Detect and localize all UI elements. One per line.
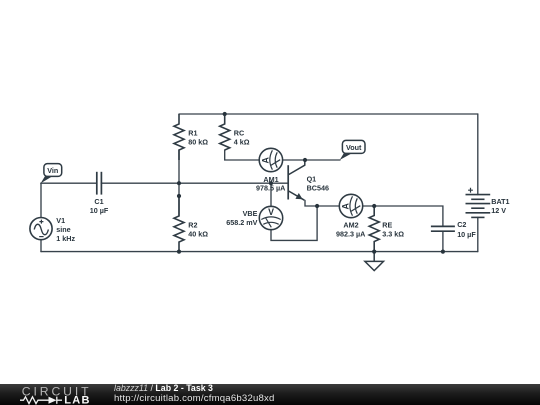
svg-text:http://circuitlab.com/cfmqa6b3: http://circuitlab.com/cfmqa6b32u8xd — [114, 393, 275, 404]
svg-text:40 kΩ: 40 kΩ — [188, 229, 208, 238]
wire battery top lead — [477, 114, 479, 195]
label RC value — [234, 128, 250, 146]
wire AM1 to collector node — [283, 159, 306, 161]
resistor R1 — [174, 114, 184, 160]
wire V1 top lead — [40, 183, 42, 217]
svg-text:A: A — [341, 202, 351, 209]
resistor RC — [220, 114, 230, 150]
wire C2 bottom lead — [442, 231, 444, 251]
wire C1 to Q1 base — [101, 182, 287, 184]
resistor R2 — [174, 196, 184, 252]
svg-text:V1: V1 — [56, 216, 65, 225]
label VBE value — [226, 209, 257, 227]
wire RC to AM1 — [225, 150, 260, 160]
wire emitter to AM2 — [305, 200, 339, 206]
svg-text:1 kHz: 1 kHz — [56, 234, 75, 243]
CircuitLab logo zigzag and diode — [20, 397, 62, 404]
svg-text:V: V — [268, 207, 274, 217]
svg-text:12 V: 12 V — [491, 206, 506, 215]
net flag Vout — [340, 140, 365, 160]
label V1 value — [56, 216, 75, 243]
svg-text:C2: C2 — [457, 220, 466, 229]
svg-text:658.2 mV: 658.2 mV — [226, 218, 257, 227]
capacitor C2 — [431, 226, 455, 231]
label BAT1 value — [491, 197, 509, 215]
svg-text:Q1: Q1 — [307, 175, 317, 184]
transistor Q1 — [288, 160, 305, 200]
svg-text:Vout: Vout — [346, 143, 362, 152]
svg-text:BC546: BC546 — [307, 184, 329, 193]
label R1 value — [188, 128, 208, 146]
wire VBE bottom loop — [271, 206, 317, 240]
node R2 bottom — [177, 250, 181, 254]
svg-text:labzzz11 / Lab 2 - Task 3: labzzz11 / Lab 2 - Task 3 — [114, 383, 213, 393]
label R2 value — [188, 220, 208, 238]
svg-text:3.3 kΩ: 3.3 kΩ — [382, 229, 404, 238]
label RE value — [382, 220, 404, 238]
label AM2 value — [336, 220, 365, 238]
svg-text:AM2: AM2 — [343, 220, 358, 229]
svg-text:BAT1: BAT1 — [491, 197, 509, 206]
wire divider vertical R1 to R2 — [178, 150, 180, 216]
voltmeter VBE — [259, 206, 282, 229]
svg-text:Vin: Vin — [47, 166, 58, 175]
voltage source V1 — [30, 218, 52, 240]
node RC top — [223, 112, 227, 116]
node divider mid junction — [177, 194, 181, 198]
node divider base junction — [177, 181, 181, 185]
node RE top — [372, 204, 376, 208]
svg-text:4 kΩ: 4 kΩ — [234, 137, 250, 146]
resistor RE — [369, 206, 379, 252]
svg-text:10 µF: 10 µF — [457, 230, 476, 239]
ammeter AM2 — [339, 194, 362, 217]
label C2 value — [457, 220, 476, 239]
wire RE to C2 — [374, 206, 443, 226]
svg-text:R1: R1 — [188, 128, 197, 137]
node VBE tap — [269, 181, 273, 185]
wire top rail — [179, 113, 478, 115]
footer bar — [0, 384, 540, 405]
svg-text:R2: R2 — [188, 220, 197, 229]
wire bottom rail — [41, 251, 478, 253]
svg-text:VBE: VBE — [243, 209, 258, 218]
wire AM2 to RE — [363, 205, 375, 207]
label AM1 value — [256, 175, 285, 193]
wire battery bottom lead — [477, 217, 479, 251]
svg-text:A: A — [261, 156, 271, 163]
wire V1 bottom lead — [40, 240, 42, 252]
svg-text:80 kΩ: 80 kΩ — [188, 137, 208, 146]
capacitor C1 — [97, 172, 102, 195]
svg-text:RE: RE — [382, 220, 392, 229]
net flag Vin — [41, 164, 62, 184]
svg-text:10 µF: 10 µF — [90, 206, 109, 215]
wire collector node to Vout — [305, 159, 340, 161]
svg-text:sine: sine — [56, 225, 70, 234]
svg-text:C1: C1 — [94, 197, 103, 206]
ground — [365, 252, 384, 271]
node collector — [303, 158, 307, 162]
svg-text:982.3 µA: 982.3 µA — [336, 229, 365, 238]
label C1 value — [90, 197, 109, 215]
node C2 bottom — [441, 250, 445, 254]
wire VBE top lead — [270, 183, 272, 206]
label Q1 value — [307, 175, 329, 193]
battery BAT1 — [466, 188, 491, 218]
svg-text:LAB: LAB — [64, 394, 91, 405]
node emitter VBE tap — [315, 204, 319, 208]
svg-text:RC: RC — [234, 128, 244, 137]
ammeter AM1 — [259, 148, 282, 171]
node ground rail — [372, 250, 376, 254]
wire base row Vin to C1 — [41, 182, 97, 184]
